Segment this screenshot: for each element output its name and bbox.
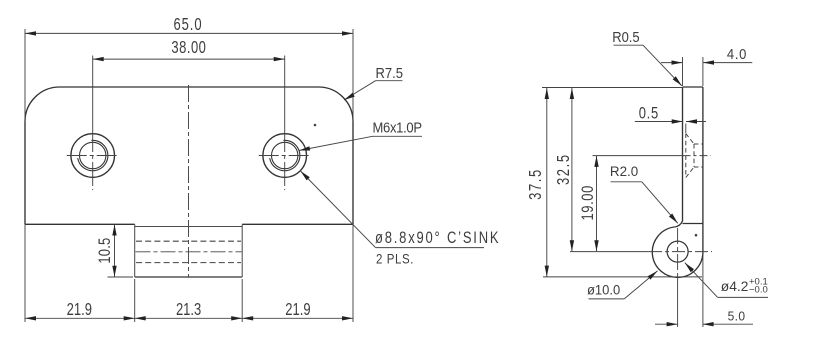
svg-text:21.3: 21.3: [176, 300, 201, 319]
svg-text:M6x1.0P: M6x1.0P: [373, 120, 422, 136]
svg-text:38.00: 38.00: [171, 38, 206, 57]
svg-text:−0.0: −0.0: [749, 284, 768, 295]
svg-text:ø10.0: ø10.0: [587, 282, 620, 297]
svg-text:21.9: 21.9: [67, 300, 92, 319]
svg-text:4.0: 4.0: [727, 45, 747, 62]
svg-text:ø8.8x90° C’SINK: ø8.8x90° C’SINK: [375, 229, 500, 248]
svg-text:2 PLS.: 2 PLS.: [376, 252, 414, 267]
svg-text:10.5: 10.5: [95, 238, 114, 264]
svg-text:0.5: 0.5: [639, 105, 659, 123]
svg-text:R0.5: R0.5: [612, 30, 640, 46]
svg-text:5.0: 5.0: [728, 309, 746, 324]
svg-text:32.5: 32.5: [554, 153, 573, 185]
svg-text:19.00: 19.00: [579, 185, 598, 220]
svg-text:37.5: 37.5: [526, 168, 545, 200]
svg-text:R7.5: R7.5: [376, 64, 404, 81]
svg-text:21.9: 21.9: [285, 300, 310, 319]
svg-text:65.0: 65.0: [173, 15, 202, 34]
svg-text:R2.0: R2.0: [610, 164, 638, 179]
svg-text:ø4.2: ø4.2: [721, 279, 749, 294]
